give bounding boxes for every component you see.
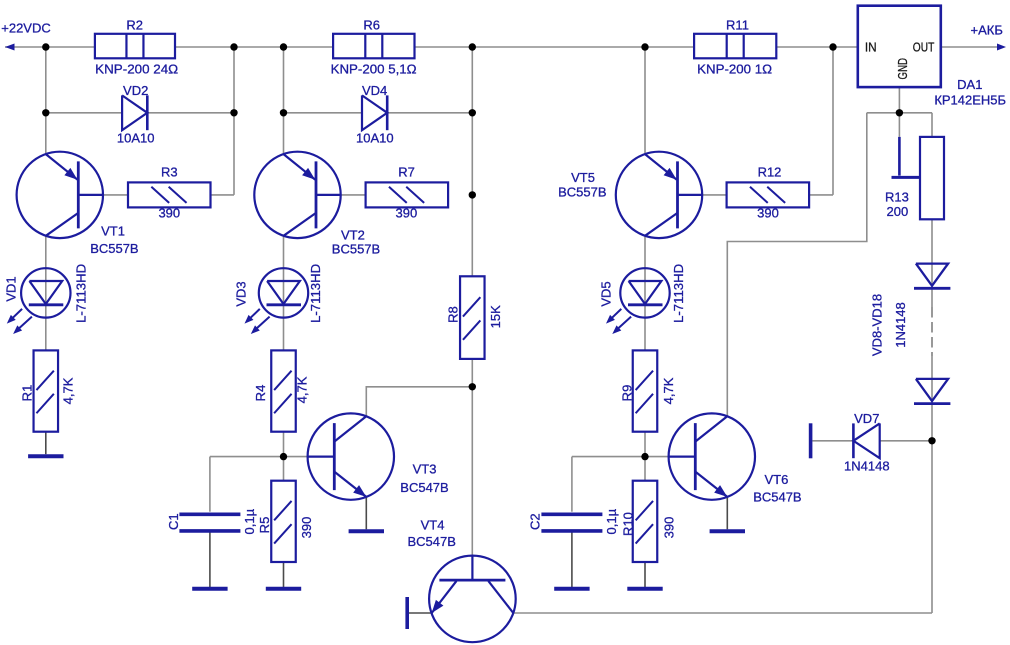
svg-text:BC557B: BC557B [332, 242, 380, 257]
svg-text:R11: R11 [726, 18, 749, 33]
svg-text:BC547B: BC547B [753, 490, 801, 505]
svg-text:R12: R12 [758, 165, 782, 180]
svg-text:KNP-200 1Ω: KNP-200 1Ω [697, 62, 772, 77]
svg-text:1N4148: 1N4148 [844, 459, 890, 474]
svg-text:KNP-200 5,1Ω: KNP-200 5,1Ω [331, 62, 417, 77]
svg-text:VD2: VD2 [123, 83, 148, 98]
svg-text:R8: R8 [445, 306, 460, 323]
svg-text:1N4148: 1N4148 [893, 302, 908, 348]
svg-text:C2: C2 [528, 513, 543, 530]
svg-text:R3: R3 [161, 165, 178, 180]
svg-text:0,1µ: 0,1µ [604, 508, 619, 534]
svg-text:BC547B: BC547B [400, 480, 448, 495]
svg-text:15K: 15K [488, 305, 503, 328]
svg-text:R7: R7 [398, 165, 415, 180]
svg-text:VD8-VD18: VD8-VD18 [869, 294, 884, 356]
svg-text:200: 200 [887, 204, 909, 219]
svg-text:390: 390 [662, 517, 677, 539]
svg-text:390: 390 [158, 206, 180, 221]
svg-text:4,7K: 4,7K [661, 377, 676, 404]
svg-text:BC557B: BC557B [558, 185, 606, 200]
svg-text:VT1: VT1 [101, 224, 125, 239]
svg-text:BC547B: BC547B [407, 534, 455, 549]
svg-text:IN: IN [865, 40, 877, 55]
svg-text:VT4: VT4 [421, 517, 445, 532]
svg-text:0,1µ: 0,1µ [242, 508, 257, 534]
svg-text:R5: R5 [257, 517, 272, 534]
svg-text:L-7113HD: L-7113HD [74, 264, 89, 323]
svg-text:КР142ЕН5Б: КР142ЕН5Б [934, 92, 1006, 107]
svg-text:L-7113HD: L-7113HD [671, 264, 686, 323]
svg-text:DA1: DA1 [957, 77, 982, 92]
svg-text:R9: R9 [620, 385, 635, 402]
svg-text:VT2: VT2 [341, 228, 365, 243]
svg-text:R4: R4 [253, 385, 268, 402]
svg-text:VT3: VT3 [413, 462, 437, 477]
svg-text:KNP-200 24Ω: KNP-200 24Ω [95, 62, 178, 77]
svg-text:BC557B: BC557B [90, 241, 138, 256]
svg-text:R1: R1 [20, 385, 35, 402]
svg-text:4,7K: 4,7K [60, 377, 75, 404]
svg-text:R13: R13 [885, 190, 909, 205]
svg-text:VD5: VD5 [599, 281, 614, 306]
svg-text:C1: C1 [166, 513, 181, 530]
svg-text:VT5: VT5 [571, 170, 595, 185]
svg-text:R6: R6 [363, 18, 380, 33]
svg-text:VT6: VT6 [764, 472, 788, 487]
svg-text:10A10: 10A10 [117, 131, 155, 146]
svg-text:VD7: VD7 [854, 411, 879, 426]
svg-text:OUT: OUT [913, 40, 935, 55]
svg-text:390: 390 [757, 206, 779, 221]
svg-text:L-7113HD: L-7113HD [308, 264, 323, 323]
svg-text:R10: R10 [621, 512, 636, 536]
svg-text:10A10: 10A10 [356, 131, 394, 146]
svg-text:390: 390 [396, 206, 418, 221]
svg-text:4,7K: 4,7K [294, 376, 309, 403]
svg-text:390: 390 [299, 517, 314, 539]
svg-text:VD4: VD4 [362, 83, 387, 98]
svg-text:+22VDC: +22VDC [1, 21, 51, 36]
svg-text:GND: GND [895, 58, 910, 80]
svg-text:VD3: VD3 [234, 281, 249, 306]
svg-text:+АКБ: +АКБ [971, 23, 1003, 38]
svg-text:R2: R2 [126, 18, 143, 33]
svg-text:VD1: VD1 [4, 276, 19, 301]
